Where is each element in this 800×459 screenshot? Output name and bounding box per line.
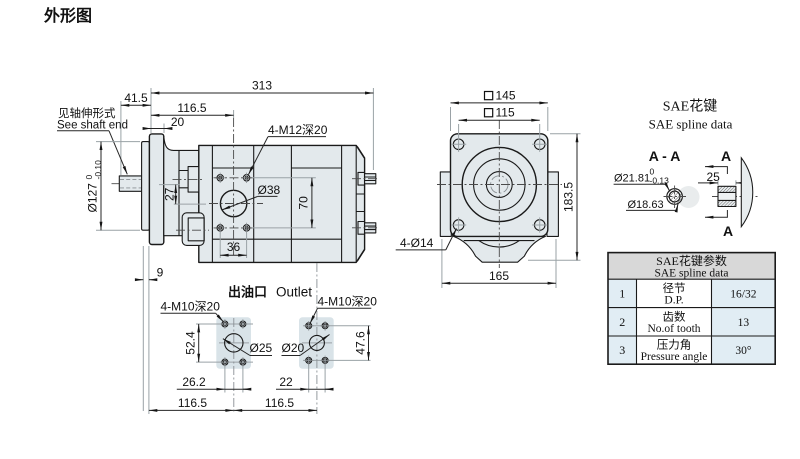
- shaft bore circle: [486, 172, 512, 198]
- svg-text:SAE spline data: SAE spline data: [649, 117, 733, 132]
- svg-text:外形图: 外形图: [43, 6, 92, 25]
- dim 116.5: [151, 114, 234, 116]
- svg-text:145: 145: [496, 89, 516, 103]
- svg-text:见轴伸形式: 见轴伸形式: [58, 106, 116, 120]
- svg-text:1: 1: [619, 287, 625, 301]
- svg-text:4-M12深20: 4-M12深20: [268, 123, 328, 137]
- svg-text:齿数: 齿数: [663, 309, 686, 323]
- front horizontal centerline: [437, 184, 562, 186]
- shaft spline section: [718, 186, 736, 206]
- ext line 41.5 left: [120, 101, 122, 175]
- svg-text:116.5: 116.5: [177, 101, 206, 115]
- left port bolt row ext top: [196, 323, 253, 325]
- leader 4-M12: [249, 137, 269, 175]
- rear plug bottom centerline: [352, 227, 380, 229]
- left port Ø25 circle: [225, 334, 243, 352]
- dim 41.5: [121, 104, 151, 106]
- right port Ø20 circle: [309, 335, 324, 350]
- dim 27 bottom ext: [174, 203, 206, 205]
- right port bolt row ext bottom: [303, 359, 371, 361]
- svg-text:3: 3: [619, 343, 625, 357]
- rear body right tab: [547, 172, 558, 237]
- shaft section centerline: [712, 196, 759, 198]
- flange bolt hole bottom-left: [451, 217, 466, 232]
- svg-text:Ø25: Ø25: [250, 341, 273, 355]
- shaft end crescent: [741, 158, 752, 227]
- dim □145: [485, 92, 493, 100]
- leader Ø21.81: [614, 183, 666, 185]
- body inner horizontals: [212, 168, 341, 239]
- svg-text:183.5: 183.5: [562, 182, 576, 212]
- bottom lobe body: [454, 236, 546, 262]
- pilot spigot plate (Ø127): [142, 142, 150, 231]
- bolt circle M12 bottom-left: [215, 223, 225, 233]
- bolt circle M12 top-left: [215, 173, 225, 183]
- svg-text:20: 20: [171, 115, 185, 129]
- svg-text:115: 115: [496, 106, 515, 120]
- svg-text:Ø38: Ø38: [258, 183, 281, 197]
- bolt circle M12 top-right: [241, 173, 251, 183]
- section arrow top: [705, 167, 727, 174]
- svg-text:116.5: 116.5: [178, 396, 207, 410]
- svg-text:27: 27: [163, 187, 177, 201]
- left port bolt row ext bottom: [196, 361, 253, 363]
- dim 27: [175, 185, 177, 205]
- upper boss centerline: [173, 178, 205, 180]
- upper boss B: [188, 167, 199, 193]
- left port centerline vertical: [233, 318, 235, 414]
- spline hole centerlines: [664, 186, 687, 209]
- leader Ø18.63: [626, 209, 677, 211]
- right port centerline vertical: [316, 263, 318, 414]
- dim 116.5 left: [149, 409, 234, 411]
- svg-text:26.2: 26.2: [182, 375, 206, 389]
- rear plug top centerline: [352, 178, 380, 180]
- left port pad: [216, 317, 251, 369]
- left port bolt M10 bottom-left: [220, 357, 230, 367]
- svg-text:-0.10: -0.10: [93, 160, 103, 180]
- right port bolt M10 bottom-right: [320, 356, 330, 366]
- lower boss centerline: [176, 229, 209, 231]
- svg-text:See shaft end: See shaft end: [57, 119, 128, 131]
- left port bolt col ext lines: [225, 366, 243, 393]
- ext line 20 right: [163, 124, 165, 134]
- lower boss inner: [188, 218, 204, 241]
- svg-text:A - A: A - A: [649, 148, 681, 164]
- right port bolt row ext top: [303, 325, 371, 327]
- rear plug top: [358, 172, 376, 185]
- right port bolt M10 top-right: [320, 321, 330, 331]
- shaft centerline: [112, 183, 173, 185]
- Ø38 horizontal centerline: [209, 203, 263, 205]
- leader see shaft end: [109, 131, 127, 175]
- leader 4-Ø14: [446, 229, 457, 250]
- rear face notches: [356, 194, 364, 212]
- dim 165: [442, 282, 556, 284]
- dim 27 top stub: [159, 184, 180, 186]
- svg-text:Pressure angle: Pressure angle: [641, 351, 708, 363]
- gear housing circle: [462, 147, 536, 221]
- right port bolt col ext lines: [309, 364, 325, 393]
- flange bolt hole top-right: [532, 137, 547, 152]
- ext lines 313/116.5/20 left datum: [150, 88, 152, 133]
- svg-text:Ø21.81: Ø21.81: [614, 173, 650, 185]
- gear vertical centerline: [233, 118, 235, 257]
- long ext line left (flange face): [142, 246, 144, 411]
- main body block: [199, 145, 365, 262]
- svg-text:A: A: [723, 223, 733, 239]
- svg-text:2: 2: [619, 315, 625, 329]
- dim □115: [485, 109, 493, 117]
- leader 4-M10 right: [310, 308, 318, 323]
- spline pitch dashed circle: [491, 176, 508, 193]
- body inner verticals: [212, 145, 356, 262]
- ext line 116.5 right: [233, 110, 235, 118]
- svg-text:30°: 30°: [735, 345, 752, 357]
- svg-text:径节: 径节: [663, 282, 686, 295]
- svg-text:22: 22: [279, 375, 293, 389]
- ext lines 165: [442, 239, 556, 288]
- section arrow bottom: [705, 210, 727, 217]
- dim 47.6: [368, 326, 370, 361]
- dim 20 outside arrows: [144, 128, 152, 130]
- svg-text:出油口: 出油口: [228, 285, 267, 300]
- Ø127 ext lines: [96, 142, 140, 231]
- right port bolt M10 top-left: [304, 321, 314, 331]
- svg-text:4-M10深20: 4-M10深20: [161, 300, 221, 314]
- left port circle centerline horizontal: [219, 342, 249, 344]
- ext lines 115: [459, 124, 540, 137]
- svg-text:52.4: 52.4: [184, 331, 198, 355]
- shaft hidden spline lines: [120, 179, 141, 188]
- svg-text:36: 36: [227, 240, 241, 254]
- svg-text:A: A: [721, 148, 731, 164]
- left port bolt M10 bottom-right: [238, 357, 248, 367]
- rear corner facet line: [357, 147, 365, 262]
- section B divider: [178, 150, 180, 235]
- lobe interface line: [464, 240, 535, 242]
- long ext line right (mounting face) down to ports: [148, 246, 150, 414]
- svg-text:165: 165: [489, 269, 509, 283]
- front vertical centerline: [498, 120, 500, 268]
- leader Ø20: [300, 335, 330, 356]
- dim 313: [151, 92, 373, 94]
- svg-text:No.of tooth: No.of tooth: [647, 323, 700, 335]
- svg-text:4-Ø14: 4-Ø14: [400, 236, 434, 250]
- watermark blob: [678, 186, 700, 208]
- spline hole inner circle: [669, 191, 680, 202]
- svg-text:Ø18.63: Ø18.63: [628, 199, 664, 211]
- svg-text:D.P.: D.P.: [664, 295, 683, 307]
- bolt circle M12 bottom-right: [241, 223, 251, 233]
- svg-text:SAE花键参数: SAE花键参数: [656, 253, 727, 268]
- dim 116.5 right: [234, 409, 317, 411]
- svg-text:70: 70: [297, 196, 311, 210]
- ext lines 183.5: [528, 134, 581, 260]
- upper boss A: [179, 171, 189, 188]
- svg-text:313: 313: [252, 79, 272, 93]
- ext line 313 right: [372, 88, 374, 170]
- left port bolt M10 top-left: [220, 319, 230, 329]
- dim 36: [220, 254, 246, 256]
- dim 9 outside arrows: [136, 279, 143, 281]
- dim 36 ext lines: [220, 233, 246, 258]
- leader 4-M10 left: [216, 313, 224, 321]
- dim Ø127: [100, 142, 102, 231]
- svg-text:Ø20: Ø20: [282, 341, 305, 355]
- rear plug bottom: [358, 222, 376, 235]
- svg-text:47.6: 47.6: [354, 331, 368, 355]
- svg-text:13: 13: [738, 317, 750, 329]
- bearing housing section B: [164, 137, 199, 236]
- rear body left tab: [440, 172, 451, 237]
- svg-text:SAE花键: SAE花键: [663, 99, 717, 115]
- front mounting flange square: [451, 134, 548, 237]
- Ø38 port circle: [220, 190, 246, 216]
- flange bolt hole top-left: [451, 137, 466, 152]
- table header bg: [608, 253, 775, 280]
- dim 183.5: [576, 134, 578, 260]
- dim 70: [311, 178, 313, 228]
- svg-text:Outlet: Outlet: [276, 285, 312, 300]
- svg-text:41.5: 41.5: [124, 91, 148, 105]
- spline hole outer circle: [667, 189, 683, 205]
- svg-text:116.5: 116.5: [265, 396, 294, 410]
- dim 52.4: [198, 324, 200, 362]
- shaft: [119, 176, 142, 191]
- bolt row centerlines: [214, 178, 254, 228]
- svg-text:SAE spline data: SAE spline data: [654, 268, 728, 280]
- table row bgs: [608, 279, 637, 364]
- svg-text:Ø127: Ø127: [86, 183, 100, 213]
- spline hole hatching: [667, 189, 682, 204]
- bearing circle: [474, 159, 525, 210]
- svg-text:压力角: 压力角: [657, 339, 692, 352]
- right port circle centerline horizontal: [302, 342, 332, 344]
- dim 70 ext lines: [252, 178, 316, 228]
- left port bolt M10 top-right: [238, 319, 248, 329]
- svg-text:4-M10深20: 4-M10深20: [318, 295, 378, 309]
- flange bolt hole bottom-right: [532, 217, 547, 232]
- right port bolt M10 bottom-left: [304, 356, 314, 366]
- lower boss outer: [182, 213, 204, 246]
- ext lines 145: [451, 107, 548, 131]
- right port pad: [299, 317, 334, 369]
- lower chamber arc: [479, 241, 520, 247]
- leader Ø38: [222, 196, 258, 210]
- mounting flange plate: [149, 134, 163, 245]
- svg-text:16/32: 16/32: [730, 289, 756, 301]
- leader Ø25: [223, 339, 250, 356]
- svg-text:9: 9: [157, 265, 164, 279]
- table grid: [608, 279, 775, 364]
